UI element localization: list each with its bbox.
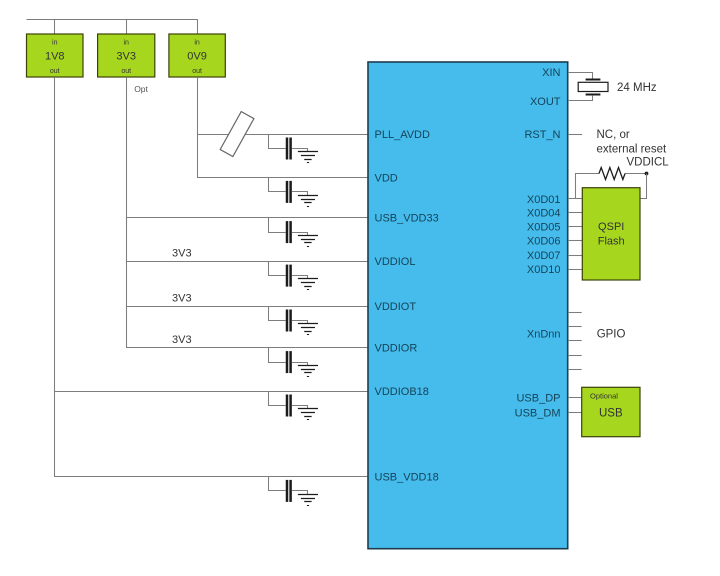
capacitor C8 (USB_VDD18 decoupling): [269, 477, 291, 502]
svg-text:X0D07: X0D07: [527, 250, 561, 262]
svg-text:RST_N: RST_N: [524, 129, 560, 141]
wire: VDDIOR supply rail: [126, 347, 369, 349]
wire: X0D01 to QSPI flash: [568, 198, 583, 200]
svg-text:USB_VDD18: USB_VDD18: [375, 471, 439, 483]
crystal Y1 24 MHz: [578, 80, 608, 95]
wire: X0D05 to QSPI flash: [568, 226, 583, 228]
QSPI flash U2: [582, 188, 640, 280]
resistor R1 pull-up X0D01 to VDDICL: [576, 168, 647, 199]
wire: VDDIOT supply rail: [126, 306, 369, 308]
svg-text:X0D10: X0D10: [527, 264, 561, 276]
regulator 1V8: [27, 34, 84, 77]
wire: USB_VDD18 supply rail: [54, 476, 369, 478]
svg-text:XnDnn: XnDnn: [527, 328, 561, 340]
wire: GPIO stub 5: [568, 369, 582, 371]
wire: GPIO stub 3: [568, 340, 582, 342]
svg-text:3V3: 3V3: [172, 293, 192, 305]
ground symbol (C7): [292, 406, 318, 420]
svg-text:VDDIOT: VDDIOT: [375, 301, 417, 313]
svg-text:VDDICL: VDDICL: [627, 157, 670, 169]
svg-text:out: out: [121, 68, 131, 75]
wire: 0V9 input drop: [197, 19, 199, 34]
wire: GPIO stub 1: [568, 312, 582, 314]
wire: 3V3 output vertical: [126, 77, 128, 348]
svg-text:USB_DM: USB_DM: [515, 408, 561, 420]
ground symbol (C1): [292, 149, 318, 163]
svg-text:external reset: external reset: [597, 144, 667, 156]
svg-text:PLL_AVDD: PLL_AVDD: [375, 129, 430, 141]
wire: VDDICL to QSPI Vcc: [640, 174, 647, 199]
wire: X0D07 to QSPI flash: [568, 255, 583, 257]
wire: 0V9 output vertical: [197, 77, 199, 178]
ferrite bead FB1 on PLL_AVDD: [220, 112, 254, 157]
ground symbol (C3): [292, 233, 318, 247]
svg-text:GPIO: GPIO: [597, 328, 626, 340]
wire: X0D06 to QSPI flash: [568, 240, 583, 242]
wire: PLL_AVDD supply rail: [197, 134, 369, 136]
capacitor C4 (VDDIOL decoupling): [269, 262, 291, 287]
svg-text:VDDIOB18: VDDIOB18: [375, 386, 429, 398]
capacitor C6 (VDDIOR decoupling): [269, 348, 291, 374]
USB PHY U3 (optional): [582, 387, 640, 436]
svg-text:1V8: 1V8: [45, 50, 65, 62]
capacitor C1 (PLL_AVDD decoupling): [269, 135, 291, 160]
svg-text:XIN: XIN: [542, 67, 560, 79]
svg-text:out: out: [192, 68, 202, 75]
svg-text:QSPI: QSPI: [598, 221, 624, 233]
wire: X0D04 to QSPI flash: [568, 212, 583, 214]
wire: VDD supply rail: [197, 177, 369, 179]
wire: 3V3 input drop: [126, 19, 128, 34]
regulator 3V3: [98, 34, 155, 77]
wire: RST_N stub: [568, 134, 582, 136]
capacitor C7 (VDDIOB18 decoupling): [269, 392, 291, 417]
svg-text:VDD: VDD: [375, 172, 398, 184]
svg-text:3V3: 3V3: [116, 50, 136, 62]
wire: USB_DP stub: [568, 397, 582, 399]
svg-text:VDDIOL: VDDIOL: [375, 256, 416, 268]
ground symbol (C8): [292, 491, 318, 506]
svg-text:24 MHz: 24 MHz: [617, 82, 657, 94]
wire: VDDIOB18 supply rail: [54, 391, 369, 393]
wire: GPIO stub 2: [568, 326, 582, 328]
wire: XIN to crystal: [568, 73, 593, 79]
regulator 0V9: [169, 34, 225, 77]
svg-text:NC, or: NC, or: [597, 129, 630, 141]
wire: GPIO stub 4: [568, 355, 582, 357]
wire: 1V8 output vertical: [54, 77, 56, 477]
svg-text:Optional: Optional: [590, 391, 618, 400]
junction dot VDDICL node: [645, 172, 649, 176]
ground symbol (C2): [292, 192, 318, 207]
svg-text:Flash: Flash: [598, 236, 625, 248]
svg-text:XOUT: XOUT: [530, 96, 561, 108]
svg-text:VDDIOR: VDDIOR: [375, 343, 418, 355]
wire: XOUT to crystal: [568, 95, 593, 100]
wire: input supply top rail: [27, 19, 198, 21]
svg-text:X0D04: X0D04: [527, 207, 561, 219]
svg-text:out: out: [50, 68, 60, 75]
capacitor C5 (VDDIOT decoupling): [269, 307, 291, 332]
svg-text:in: in: [194, 40, 200, 47]
capacitor C2 (VDD decoupling): [269, 178, 291, 203]
label NC, or external reset: [597, 129, 667, 155]
ground symbol (C4): [292, 276, 318, 290]
capacitor C3 (USB_VDD33 decoupling): [269, 218, 291, 244]
ground symbol (C5): [292, 321, 318, 335]
svg-text:USB_DP: USB_DP: [516, 393, 560, 405]
svg-text:USB: USB: [599, 408, 623, 420]
svg-text:3V3: 3V3: [172, 334, 192, 346]
svg-text:X0D06: X0D06: [527, 235, 561, 247]
svg-text:in: in: [123, 40, 129, 47]
wire: 1V8 input drop: [54, 19, 56, 34]
wire: USB_DM stub: [568, 412, 582, 414]
svg-text:in: in: [52, 40, 58, 47]
ground symbol (C6): [292, 363, 318, 377]
svg-text:USB_VDD33: USB_VDD33: [375, 213, 439, 225]
wire: X0D10 to QSPI flash: [568, 269, 583, 271]
svg-text:X0D05: X0D05: [527, 221, 561, 233]
svg-text:Opt: Opt: [134, 84, 148, 94]
svg-text:3V3: 3V3: [172, 248, 192, 260]
wire: VDDIOL supply rail: [126, 261, 369, 263]
wire: USB_VDD33 supply rail: [126, 217, 369, 219]
IC U1 xcore chip: [368, 62, 568, 549]
svg-text:X0D01: X0D01: [527, 194, 561, 206]
svg-text:0V9: 0V9: [187, 50, 207, 62]
